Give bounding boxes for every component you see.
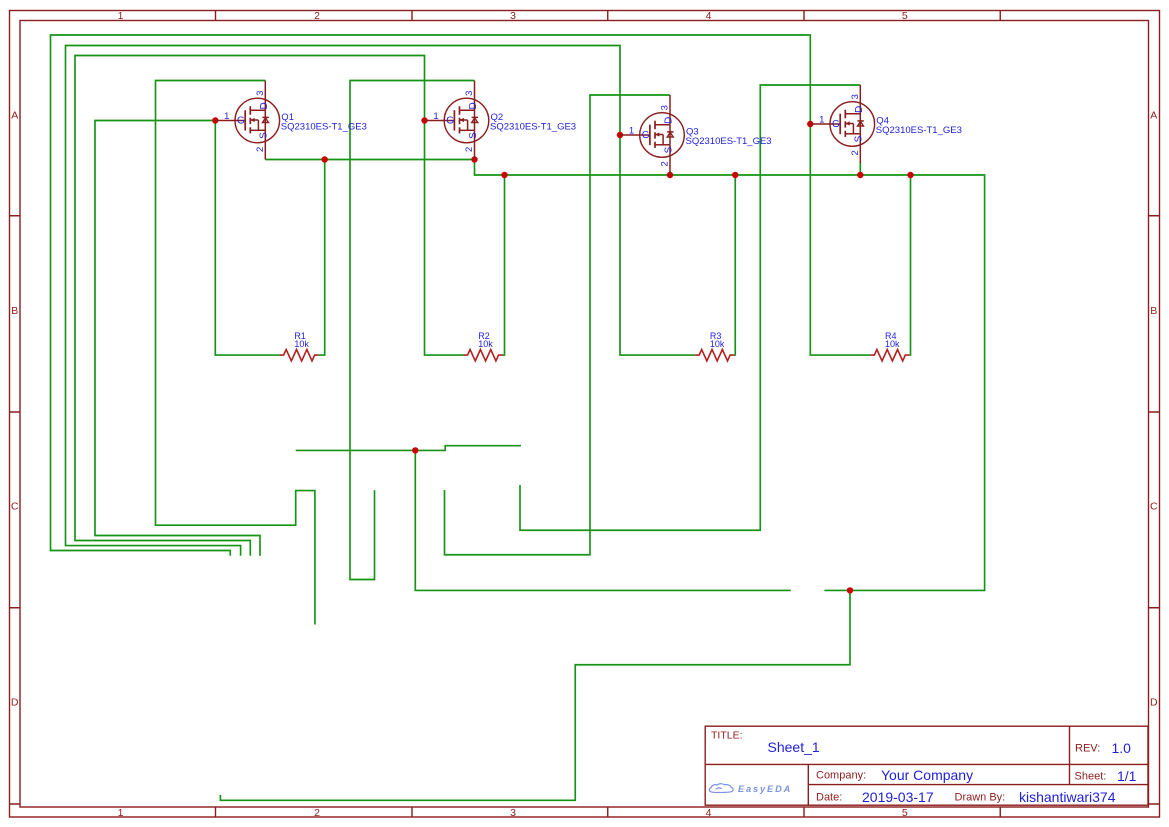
svg-text:Company:: Company: (816, 770, 866, 782)
Q2 source connect (460, 129, 475, 131)
Q1 source connect (250, 129, 265, 131)
transistor Q1 SQ2310ES-T1_GE3 (215, 81, 367, 160)
svg-text:REV:: REV: (1075, 742, 1100, 754)
Q3 source connect (655, 144, 670, 146)
wire R1 right up to source rail (319, 160, 325, 356)
resistor R2 10k (464, 331, 503, 361)
Q2 gate bar (453, 110, 455, 130)
Q1 pin 1 gate lead (215, 120, 245, 122)
svg-text:1/1: 1/1 (1117, 768, 1137, 784)
transistor Q3 SQ2310ES-T1_GE3 (620, 95, 772, 175)
Q1 gate bar (244, 110, 246, 130)
junction R4 top (907, 172, 913, 178)
svg-text:1: 1 (224, 111, 229, 122)
R4 zigzag (870, 350, 909, 361)
svg-text:10k: 10k (294, 339, 309, 349)
wire net gate-Q1 left loop (95, 121, 260, 556)
Q2 pin 3 drain lead (474, 81, 476, 111)
Q4 channel dashes (844, 110, 846, 137)
svg-text:D: D (854, 106, 865, 113)
Q1 pin 2 source lead (264, 130, 266, 159)
wire net gate-Q2 loop (75, 56, 464, 556)
Q1 drain connect (250, 110, 265, 130)
Q1 channel dashes (249, 106, 251, 133)
svg-text:B: B (1150, 305, 1157, 317)
svg-text:G: G (642, 130, 650, 141)
Q2 pin 1 gate lead (425, 120, 455, 122)
svg-text:C: C (11, 501, 19, 513)
Q2 pin 2 source lead (474, 130, 476, 159)
svg-text:10k: 10k (885, 339, 900, 349)
svg-text:Your Company: Your Company (881, 767, 973, 783)
Q3 pin 1 gate lead (620, 134, 650, 136)
R1 zigzag (280, 350, 319, 361)
svg-text:3: 3 (660, 105, 671, 110)
junction Q4 gate (807, 121, 813, 127)
Q3 drain connect (655, 125, 670, 145)
junction Q4 source (857, 172, 863, 178)
svg-text:SQ2310ES-T1_GE3: SQ2310ES-T1_GE3 (876, 125, 962, 136)
svg-text:S: S (663, 146, 674, 153)
resistor R4 10k (870, 331, 909, 361)
svg-text:3: 3 (850, 94, 861, 99)
Q1 pin 3 drain lead (264, 81, 266, 111)
svg-text:D: D (468, 102, 479, 109)
Q2 drain connect (460, 110, 475, 130)
svg-text:4: 4 (706, 807, 712, 819)
transistor Q4 SQ2310ES-T1_GE3 (810, 85, 962, 163)
svg-text:1: 1 (118, 807, 124, 819)
svg-text:D: D (11, 697, 19, 709)
svg-text:D: D (1150, 697, 1158, 709)
junction Q3 gate (617, 132, 623, 138)
svg-text:10k: 10k (478, 339, 493, 349)
svg-text:Sheet_1: Sheet_1 (768, 739, 820, 755)
svg-text:2: 2 (464, 147, 475, 152)
svg-text:A: A (11, 110, 18, 122)
Q4 circle body (830, 102, 875, 147)
wire net gate-Q3 loop (66, 46, 696, 556)
svg-text:TITLE:: TITLE: (711, 730, 743, 742)
svg-text:3: 3 (464, 91, 475, 96)
wire source net bottom run (220, 590, 850, 800)
svg-text:kishantiwari374: kishantiwari374 (1019, 789, 1116, 805)
wire gate-Q1 down to R1 left (215, 121, 279, 356)
Q2 body diode (472, 116, 478, 118)
Q1 body connect with arrow (250, 120, 258, 130)
svg-text:EasyEDA: EasyEDA (738, 784, 792, 794)
Q3 pin 3 drain lead (669, 95, 671, 125)
svg-text:D: D (664, 117, 675, 124)
Q3 channel dashes (654, 121, 656, 148)
svg-text:5: 5 (902, 10, 908, 22)
Q4 drain connect (845, 114, 860, 134)
Q4 body connect with arrow (846, 124, 854, 134)
svg-text:S: S (468, 132, 479, 139)
Q4 source connect (845, 133, 860, 135)
wire source rail top (265, 160, 984, 591)
svg-text:2019-03-17: 2019-03-17 (862, 789, 934, 805)
Q3 pin 2 source lead (669, 145, 671, 175)
R3 zigzag (695, 350, 734, 361)
svg-text:G: G (237, 116, 245, 127)
Q2 body connect with arrow (460, 120, 468, 130)
svg-text:2: 2 (255, 147, 266, 152)
svg-text:B: B (11, 305, 18, 317)
svg-text:3: 3 (255, 91, 266, 96)
junction Q1 gate (212, 117, 218, 123)
junction source net (847, 587, 853, 593)
svg-text:SQ2310ES-T1_GE3: SQ2310ES-T1_GE3 (281, 122, 367, 133)
wire R3 right up to source rail (734, 175, 735, 355)
svg-text:2: 2 (314, 807, 320, 819)
wire net drain-Q1 (156, 81, 315, 625)
Q3 gate bar (649, 125, 651, 145)
svg-text:Drawn By:: Drawn By: (955, 791, 1006, 803)
svg-text:10k: 10k (710, 339, 725, 349)
svg-text:1: 1 (819, 114, 824, 125)
svg-text:A: A (1150, 110, 1157, 122)
wire net drain-Q4 (520, 85, 860, 530)
junction Q3 source (667, 172, 673, 178)
svg-text:D: D (259, 102, 270, 109)
resistor R3 10k (695, 331, 734, 361)
wire R4 right up to source rail (909, 175, 910, 355)
Q4 pin 2 source lead (859, 134, 861, 163)
title block dividers (705, 726, 1148, 805)
svg-text:G: G (446, 116, 454, 127)
svg-text:5: 5 (902, 807, 908, 819)
Q3 circle body (640, 113, 685, 158)
wire net drain-Q2 (350, 81, 475, 580)
svg-text:1: 1 (433, 111, 438, 122)
Q1 circle body (235, 98, 280, 143)
svg-text:1.0: 1.0 (1112, 740, 1132, 756)
wire net drain-Q3 (445, 95, 671, 555)
svg-text:4: 4 (706, 10, 712, 22)
wire R2 right up to source rail (503, 175, 505, 355)
Q4 body diode (857, 120, 863, 122)
wire floating net down-right (415, 450, 790, 590)
svg-text:C: C (1150, 501, 1158, 513)
svg-text:S: S (259, 132, 270, 139)
Q3 body connect with arrow (655, 135, 663, 145)
Q4 pin 1 gate lead (810, 123, 840, 125)
svg-text:1: 1 (629, 125, 634, 136)
junction Q2 gate (421, 117, 427, 123)
svg-text:3: 3 (510, 10, 516, 22)
svg-text:2: 2 (314, 10, 320, 22)
wire floating net horizontal (296, 446, 521, 451)
svg-text:3: 3 (510, 807, 516, 819)
junction R1 top (322, 156, 328, 162)
svg-text:SQ2310ES-T1_GE3: SQ2310ES-T1_GE3 (686, 136, 772, 147)
svg-text:1: 1 (118, 10, 124, 22)
junction floating net (412, 447, 418, 453)
svg-text:S: S (854, 135, 865, 142)
Q2 channel dashes (459, 106, 461, 133)
wire net gate-Q4 loop (51, 35, 871, 556)
Q1 body diode (262, 116, 268, 118)
Q3 body diode (667, 131, 673, 133)
junction R2 top (501, 172, 507, 178)
Q2 circle body (444, 98, 489, 143)
junction Q2 source (471, 156, 477, 162)
title block frame (705, 726, 1148, 805)
resistor R1 10k (280, 331, 319, 361)
svg-text:2: 2 (850, 150, 861, 155)
EasyEDA logo cloud glyph (709, 784, 733, 793)
Q4 pin 3 drain lead (859, 85, 861, 114)
svg-text:SQ2310ES-T1_GE3: SQ2310ES-T1_GE3 (490, 122, 576, 133)
svg-text:2: 2 (660, 161, 671, 166)
svg-text:G: G (832, 119, 840, 130)
wire Q4 source pin extension (859, 162, 861, 175)
svg-text:Sheet:: Sheet: (1075, 771, 1107, 783)
transistor Q2 SQ2310ES-T1_GE3 (425, 81, 577, 160)
junction R3 top (732, 172, 738, 178)
R2 zigzag (464, 350, 503, 361)
Q4 gate bar (839, 114, 841, 134)
svg-text:Date:: Date: (816, 791, 842, 803)
